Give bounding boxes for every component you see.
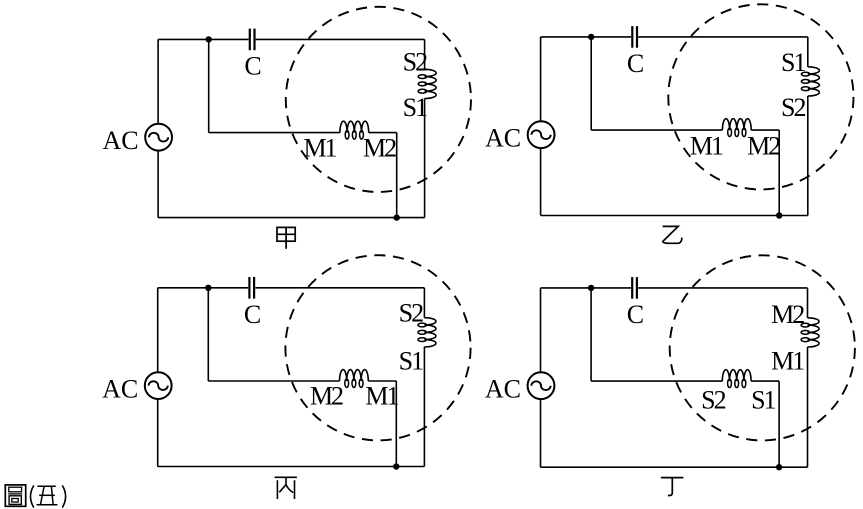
wire: right side below S coil (bing) — [423, 347, 425, 467]
svg-text:M1: M1 — [771, 346, 804, 375]
junction node: top dot (jia) — [206, 36, 212, 42]
svg-text:AC: AC — [485, 375, 521, 404]
AC source circle (ding) — [528, 372, 555, 399]
dashed rotor boundary circle (ding) — [670, 255, 855, 440]
figure label: glyph tu (圖) — [5, 485, 25, 506]
wire: top-right segment from capacitor to right corner (bing) — [255, 287, 424, 289]
dashed rotor boundary circle (yi) — [668, 4, 853, 189]
figure label: open parenthesis — [31, 485, 34, 507]
wire: left side above AC source (yi) — [540, 37, 542, 121]
wire: bottom side (yi) — [541, 215, 808, 217]
wire: bottom side (jia) — [158, 217, 425, 219]
inductor coil S left loops (bing) — [418, 323, 426, 341]
wire: middle horizontal left of M coil (jia) — [209, 132, 340, 134]
wire: inner vertical down to bottom junction (jia) — [396, 133, 398, 218]
wire: inner vertical from top junction (ding) — [590, 288, 592, 381]
junction node: top dot (bing) — [205, 285, 211, 291]
wire: top-left segment from corner to capacitor (bing) — [158, 287, 249, 289]
svg-text:C: C — [627, 49, 644, 78]
capacitor C plates (bing) — [249, 277, 254, 299]
svg-text:AC: AC — [102, 375, 138, 404]
inductor coil S arches on right side (yi) — [808, 67, 820, 96]
AC source sine wave (bing) — [149, 381, 168, 390]
wire: right side above S coil (yi) — [807, 37, 809, 67]
figure label: glyph wu (五) — [37, 486, 58, 504]
figure label: close parenthesis — [62, 485, 65, 507]
wire: right side below S coil (ding) — [807, 347, 809, 467]
wire: top-right segment from capacitor to right corner (jia) — [256, 38, 425, 40]
wire: inner vertical down to bottom junction (bing) — [395, 381, 397, 467]
dashed rotor boundary circle (bing) — [285, 255, 470, 440]
wire: inner vertical from top junction (bing) — [207, 288, 209, 381]
wire: right side below S coil (jia) — [424, 99, 426, 218]
AC source circle (yi) — [528, 121, 555, 148]
wire: left side above AC source (jia) — [157, 39, 159, 123]
svg-text:M1: M1 — [303, 133, 336, 162]
wire: right side above S coil (ding) — [807, 288, 809, 318]
wire: top-right segment from capacitor to right corner (yi) — [638, 36, 808, 38]
wire: left side below AC source (jia) — [157, 151, 159, 218]
junction node: bottom dot (yi) — [776, 212, 782, 218]
wire: right side above S coil (jia) — [424, 39, 426, 69]
svg-text:S1: S1 — [399, 347, 423, 376]
capacitor C plates (ding) — [632, 277, 637, 299]
inductor coil M arches (jia) — [340, 121, 369, 132]
inductor coil S left loops (jia) — [418, 75, 426, 93]
wire: inner vertical down to bottom junction (yi) — [778, 130, 780, 215]
svg-text:S1: S1 — [751, 385, 775, 414]
svg-text:C: C — [627, 300, 644, 329]
inductor coil S left loops (ding) — [801, 323, 809, 341]
wire: top-right segment from capacitor to right corner (ding) — [638, 287, 807, 289]
svg-text:S2: S2 — [399, 299, 423, 328]
caption glyph yi (乙) under second circuit — [663, 226, 682, 243]
AC source circle (bing) — [145, 372, 172, 399]
svg-text:AC: AC — [102, 126, 138, 155]
wire: middle horizontal right of M coil (ding) — [751, 380, 779, 382]
inductor coil M arches (ding) — [722, 370, 751, 381]
inductor coil M arches (bing) — [340, 370, 369, 381]
wire: bottom side (ding) — [541, 466, 808, 468]
AC source sine wave (ding) — [531, 381, 550, 390]
wire: left side above AC source (bing) — [157, 288, 159, 372]
AC source circle (jia) — [145, 124, 172, 151]
wire: middle horizontal right of M coil (bing) — [368, 380, 396, 382]
wire: top-left segment from corner to capacitor (jia) — [158, 38, 249, 40]
inductor coil S left loops (yi) — [801, 72, 809, 90]
wire: middle horizontal left of M coil (bing) — [208, 380, 339, 382]
inductor coil M bottom loops (bing) — [345, 379, 363, 387]
junction node: bottom dot (ding) — [776, 464, 782, 470]
inductor coil S arches on right side (ding) — [808, 318, 820, 347]
wire: right side below S coil (yi) — [807, 96, 809, 216]
svg-text:S1: S1 — [781, 48, 805, 77]
wire: top-left segment from corner to capacitor (ding) — [541, 287, 632, 289]
svg-text:M1: M1 — [690, 132, 723, 161]
capacitor C plates (jia) — [250, 29, 255, 51]
wire: inner vertical down to bottom junction (ding) — [778, 381, 780, 467]
svg-text:AC: AC — [485, 124, 521, 153]
junction node: top dot (yi) — [588, 34, 594, 40]
svg-text:S2: S2 — [403, 48, 427, 77]
caption glyph ding (丁) under fourth circuit — [661, 478, 684, 496]
inductor coil M arches (yi) — [722, 119, 751, 130]
wire: middle horizontal left of M coil (ding) — [591, 380, 722, 382]
wire: middle horizontal right of M coil (yi) — [751, 129, 779, 131]
svg-text:S2: S2 — [701, 385, 725, 414]
inductor coil M bottom loops (ding) — [728, 379, 746, 387]
inductor coil S arches on right side (bing) — [424, 318, 436, 347]
wire: middle horizontal left of M coil (yi) — [591, 129, 722, 131]
dashed rotor boundary circle (jia) — [286, 7, 471, 192]
svg-text:C: C — [244, 300, 261, 329]
svg-text:M2: M2 — [747, 132, 780, 161]
wire: inner vertical from top junction (jia) — [208, 39, 210, 132]
wire: left side above AC source (ding) — [540, 288, 542, 372]
svg-text:M1: M1 — [365, 382, 398, 411]
caption glyph jia (甲) under first circuit — [277, 227, 295, 248]
wire: middle horizontal right of M coil (jia) — [369, 132, 397, 134]
inductor coil M bottom loops (yi) — [728, 128, 746, 136]
caption glyph bing (丙) under third circuit — [275, 477, 297, 499]
wire: left side below AC source (ding) — [540, 399, 542, 467]
svg-text:M2: M2 — [771, 300, 804, 329]
wire: left side below AC source (bing) — [157, 399, 159, 467]
AC source sine wave (jia) — [149, 133, 168, 142]
svg-text:M2: M2 — [310, 382, 343, 411]
svg-text:S1: S1 — [403, 93, 427, 122]
junction node: bottom dot (jia) — [394, 214, 400, 220]
junction node: bottom dot (bing) — [393, 463, 399, 469]
junction node: top dot (ding) — [588, 285, 594, 291]
svg-text:S2: S2 — [781, 93, 805, 122]
capacitor C plates (yi) — [632, 26, 637, 48]
wire: left side below AC source (yi) — [540, 148, 542, 215]
wire: inner vertical from top junction (yi) — [590, 37, 592, 130]
wire: right side above S coil (bing) — [423, 288, 425, 318]
inductor coil S arches on right side (jia) — [425, 69, 437, 98]
svg-text:C: C — [244, 52, 261, 81]
wire: top-left segment from corner to capacitor (yi) — [541, 36, 632, 38]
wire: bottom side (bing) — [158, 466, 425, 468]
svg-text:M2: M2 — [363, 133, 396, 162]
inductor coil M bottom loops (jia) — [345, 131, 363, 139]
AC source sine wave (yi) — [532, 130, 551, 139]
